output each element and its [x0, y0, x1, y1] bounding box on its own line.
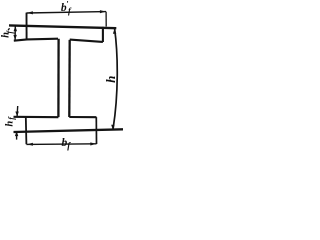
h'f dimension shaft (left, flange thickness): [14, 26, 16, 40]
h_f dimension lower arrowhead (pointing up at flange bottom): [15, 131, 18, 136]
b'f dimension line (top): [27, 12, 107, 13]
web left edge: [57, 39, 59, 117]
h_f dimension upper arrowhead (pointing down at flange top): [15, 112, 18, 117]
bottom flange top edge left (with left extension): [14, 116, 59, 118]
top flange left edge + extension up to b'f dimension line: [26, 13, 28, 40]
bottom flange bottom edge (extends left for h_f and right to image edge for h): [14, 129, 124, 132]
h dimension line (right, bowed hand-drawn): [113, 29, 117, 130]
top flange bottom edge left (with left extension line): [14, 39, 58, 41]
bf dimension left arrowhead: [27, 143, 33, 146]
svg-text:h: h: [4, 121, 15, 127]
bf dimension line (bottom): [26, 143, 96, 146]
h_f lower arrow shaft (outside, below bottom flange): [16, 132, 18, 140]
h_f upper arrow shaft (outside, above bottom flange): [16, 106, 19, 116]
svg-text:f: f: [6, 30, 15, 34]
top flange right edge: [102, 27, 104, 42]
b'f right extension line: [105, 12, 107, 27]
b'f dimension right arrowhead: [100, 10, 106, 13]
top flange bottom edge right: [70, 40, 103, 42]
h dimension top arrowhead: [113, 28, 116, 33]
svg-text:bf: bf: [62, 137, 72, 151]
h dimension bottom arrowhead: [111, 125, 114, 130]
bottom flange top edge right: [69, 116, 96, 118]
h'f dimension bottom arrowhead: [13, 35, 16, 40]
bottom flange right edge + extension down to bf dimension line: [95, 117, 97, 144]
svg-text:h: h: [103, 76, 118, 83]
b'f dimension left arrowhead: [27, 11, 33, 14]
bottom flange left edge + extension down to bf dimension line: [25, 117, 28, 144]
h'f dimension top arrowhead: [14, 26, 17, 31]
top flange top edge (with left extension for h'f and right extension for h): [9, 25, 116, 28]
svg-text:b′f: b′f: [61, 0, 72, 16]
label h'f prime tick: [8, 28, 9, 30]
bf dimension right arrowhead: [90, 142, 96, 145]
web right edge: [68, 40, 71, 117]
